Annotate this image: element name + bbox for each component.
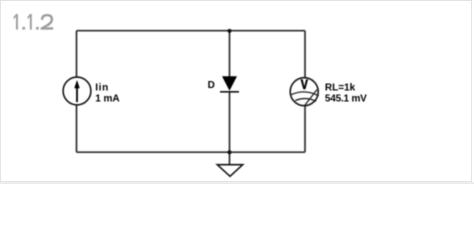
node junction bottom bbox=[228, 150, 232, 154]
wire middle vertical lower (diode to ground) bbox=[229, 92, 231, 164]
schematic title 1.1.2 bbox=[14, 14, 54, 30]
svg-text:545.1 mV: 545.1 mV bbox=[325, 94, 367, 105]
wire left vertical upper bbox=[76, 31, 78, 78]
svg-text:RL=1k: RL=1k bbox=[325, 83, 356, 94]
wire left vertical lower bbox=[76, 105, 78, 153]
wire middle vertical upper (to diode) bbox=[229, 31, 231, 77]
bottom shade strip bbox=[0, 182, 474, 184]
voltmeter scale arc outer bbox=[291, 92, 319, 96]
diode D cathode bar bbox=[220, 91, 239, 93]
svg-text:Iin: Iin bbox=[95, 82, 109, 93]
node junction top bbox=[228, 29, 232, 33]
current source I1 arrow bbox=[74, 80, 80, 102]
svg-text:D: D bbox=[208, 80, 215, 91]
wire right vertical upper bbox=[304, 31, 306, 79]
wire right vertical lower bbox=[304, 106, 306, 153]
voltmeter scale arc inner bbox=[295, 99, 316, 102]
diode D triangle bbox=[222, 76, 237, 91]
ground symbol bbox=[217, 165, 242, 177]
wire bottom horizontal bbox=[77, 151, 306, 153]
svg-text:1 mA: 1 mA bbox=[95, 94, 119, 105]
wire top horizontal bbox=[77, 30, 306, 32]
voltmeter V letter bbox=[301, 79, 309, 89]
voltmeter VM circle bbox=[290, 78, 318, 106]
panel frame bbox=[0, 0, 472, 182]
voltmeter needle bbox=[305, 90, 317, 106]
current source I1 circle bbox=[63, 77, 91, 105]
